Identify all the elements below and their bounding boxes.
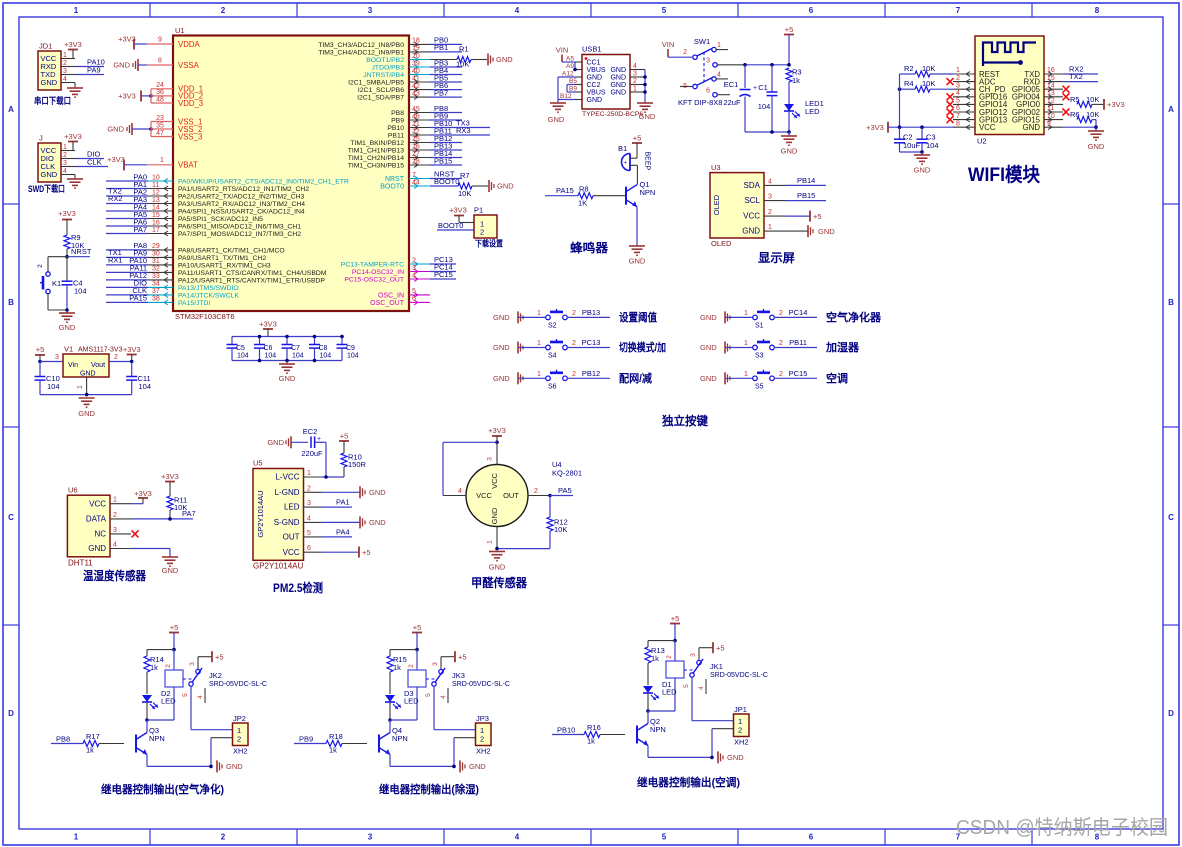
svg-text:PA1/USART2_RTS/ADC12_IN1/TIM2_: PA1/USART2_RTS/ADC12_IN1/TIM2_CH2: [178, 186, 309, 193]
pin PA0 10: [106, 172, 349, 185]
pin PB5 41: [348, 73, 462, 86]
svg-text:JD1: JD1: [39, 42, 52, 51]
ground at JD1 pin4: [67, 83, 83, 98]
svg-text:PB8: PB8: [56, 735, 70, 744]
svg-text:VDDA: VDDA: [178, 40, 200, 49]
svg-text:B: B: [8, 298, 14, 307]
svg-text:46: 46: [412, 113, 420, 120]
svg-text:1k: 1k: [329, 746, 337, 755]
svg-text:OUT: OUT: [283, 533, 300, 542]
svg-text:2: 2: [572, 340, 576, 347]
svg-text:PC15: PC15: [434, 270, 453, 279]
pin PB0 18: [318, 36, 462, 49]
svg-text:3: 3: [706, 58, 710, 65]
ground port at R1: [488, 54, 513, 66]
svg-text:+3V3: +3V3: [64, 40, 82, 49]
pin PA3 13: [106, 195, 305, 208]
wires USB1 left pins: [558, 56, 582, 104]
svg-text:7: 7: [412, 172, 416, 179]
svg-text:继电器控制输出(除湿): 继电器控制输出(除湿): [379, 782, 479, 796]
svg-text:PA0/WKUP/USART2_CTS/ADC12_IN0/: PA0/WKUP/USART2_CTS/ADC12_IN0/TIM2_CH1_E…: [178, 179, 349, 186]
svg-text:2: 2: [738, 726, 742, 735]
pin PA11 32: [106, 264, 327, 277]
pin PA9 30: [106, 249, 266, 262]
svg-text:VCC: VCC: [89, 499, 106, 508]
svg-text:104: 104: [237, 353, 249, 360]
svg-text:2: 2: [779, 340, 783, 347]
svg-text:GND: GND: [781, 147, 798, 156]
wire PA1 from U5 LED: [322, 498, 352, 508]
svg-text:PA1: PA1: [336, 498, 350, 507]
svg-text:2: 2: [408, 664, 415, 668]
pin U2 RXD 15: [1024, 75, 1063, 87]
svg-text:PB11: PB11: [789, 338, 807, 347]
pin PB14 27: [348, 149, 462, 162]
pin PA4 14: [106, 202, 305, 215]
svg-text:PA9/USART1_TX/TIM1_CH2: PA9/USART1_TX/TIM1_CH2: [178, 255, 266, 262]
capacitor C8 104: [309, 335, 331, 363]
capacitor C6 104: [254, 335, 276, 363]
svg-text:Vin: Vin: [68, 362, 78, 369]
pin PB8 45: [391, 104, 462, 117]
svg-text:KQ-2801: KQ-2801: [552, 469, 582, 478]
pin VSSA 8 with GND: [113, 58, 199, 72]
pin PC15 4: [344, 270, 456, 284]
svg-text:GND: GND: [1088, 142, 1105, 151]
svg-text:JTDO/PB3: JTDO/PB3: [372, 65, 405, 72]
svg-text:4: 4: [63, 76, 67, 83]
svg-text:2: 2: [221, 6, 226, 15]
svg-text:22: 22: [412, 128, 420, 135]
svg-text:PA9: PA9: [87, 66, 101, 75]
svg-text:OSC_IN: OSC_IN: [378, 293, 404, 300]
connector USB1 TYPEC-250D-BCP6: [582, 45, 643, 119]
pin PA10 31: [106, 256, 271, 269]
svg-text:PA5: PA5: [558, 486, 572, 495]
pushbutton S3 to PB11: [700, 338, 860, 360]
power +3V3 at U6 VCC: [131, 489, 152, 504]
svg-text:+3V3: +3V3: [866, 123, 884, 132]
ground at U2 GND pin9: [1063, 125, 1105, 151]
svg-text:GND: GND: [493, 374, 510, 383]
svg-text:3: 3: [189, 662, 196, 666]
svg-text:38: 38: [152, 296, 160, 303]
svg-text:C6: C6: [264, 345, 273, 352]
svg-text:PC13: PC13: [582, 338, 601, 347]
svg-text:104: 104: [320, 353, 332, 360]
svg-text:S-GND: S-GND: [274, 518, 300, 527]
transistor Q1 NPN: [626, 180, 655, 246]
svg-text:BOOT0: BOOT0: [438, 221, 463, 230]
svg-text:14: 14: [1047, 82, 1055, 89]
svg-text:NRST: NRST: [385, 176, 405, 183]
svg-text:JNTRST/PB4: JNTRST/PB4: [363, 72, 404, 79]
resistor R4 10K: [898, 79, 953, 92]
svg-text:10K: 10K: [456, 60, 469, 69]
pin PB9 46: [391, 111, 462, 124]
svg-text:PB11: PB11: [388, 133, 404, 140]
svg-text:A12: A12: [562, 71, 574, 78]
resistor R18 1k on PB9: [294, 732, 367, 755]
svg-text:EC1: EC1: [724, 80, 739, 89]
svg-text:1: 1: [744, 310, 748, 317]
svg-text:7: 7: [956, 113, 960, 120]
svg-text:GND: GND: [369, 488, 386, 497]
no-connect X at U2 GPIO13: [947, 116, 954, 123]
svg-text:1k: 1k: [393, 663, 401, 672]
svg-text:10: 10: [1047, 113, 1055, 120]
svg-text:GND: GND: [610, 89, 626, 96]
svg-text:3: 3: [63, 160, 67, 167]
svg-text:37: 37: [152, 288, 160, 295]
svg-text:104: 104: [47, 382, 60, 391]
svg-text:104: 104: [926, 141, 939, 150]
svg-text:1k: 1k: [86, 746, 94, 755]
ground at Q1: [629, 246, 646, 266]
ground at Q2 emitter: [648, 746, 744, 764]
svg-text:104: 104: [265, 353, 277, 360]
svg-text:26: 26: [412, 143, 420, 150]
wire top rail SW1 to R3: [743, 63, 791, 67]
wire +3V3 rail of capacitor bank: [232, 336, 342, 338]
svg-text:VBUS: VBUS: [587, 89, 606, 96]
svg-text:R17: R17: [86, 732, 100, 741]
svg-text:PC13-TAMPER-RTC: PC13-TAMPER-RTC: [341, 262, 404, 269]
no-connect X at U2 ADC: [947, 78, 954, 85]
power +5 at U5 VCC: [322, 547, 371, 558]
pin OSC_IN 5: [378, 288, 430, 299]
power +3V3 at P1: [449, 206, 474, 223]
pin PB3 39: [372, 58, 462, 71]
svg-text:GND: GND: [496, 55, 513, 64]
svg-text:1k: 1k: [150, 663, 158, 672]
svg-text:BEEP: BEEP: [644, 152, 651, 171]
svg-text:150R: 150R: [348, 460, 367, 469]
pin PB13 26: [348, 141, 462, 154]
svg-text:4: 4: [412, 272, 416, 279]
relay JK2 switch: [182, 651, 267, 703]
pin U2 GPIO04 13: [1012, 90, 1063, 102]
svg-text:+5: +5: [671, 614, 680, 623]
ground at U5 L-GND: [322, 486, 386, 498]
resistor R11 10K pullup: [161, 472, 187, 519]
wire bottom rail EC1/C1/LED1: [745, 130, 791, 134]
svg-text:JP2: JP2: [233, 714, 246, 723]
svg-text:PB10: PB10: [387, 125, 404, 132]
svg-text:下载设置: 下载设置: [475, 239, 503, 249]
sensor U6 DHT11: [67, 486, 131, 568]
LED1: [784, 99, 824, 132]
pin PB15 28: [348, 156, 462, 169]
svg-text:C1: C1: [758, 83, 768, 92]
svg-text:温湿度传感器: 温湿度传感器: [83, 568, 147, 583]
wire CLK from J pin3: [75, 158, 108, 167]
svg-text:+3V3: +3V3: [161, 472, 179, 481]
power +3V3 at V1 output: [109, 345, 141, 363]
pin U2 REST 1: [953, 67, 1000, 79]
svg-text:10K: 10K: [458, 189, 471, 198]
svg-text:GND: GND: [610, 67, 626, 74]
svg-text:串口下载口: 串口下载口: [34, 95, 71, 106]
svg-text:I2C1_SDA/PB7: I2C1_SDA/PB7: [357, 95, 404, 102]
no-connect X at U2 GPIO04: [1063, 93, 1070, 100]
svg-text:47: 47: [156, 130, 164, 137]
svg-text:VIN: VIN: [662, 40, 675, 49]
svg-text:27: 27: [412, 151, 420, 158]
svg-text:C: C: [1168, 513, 1174, 522]
svg-text:VCC: VCC: [743, 212, 760, 221]
svg-text:6: 6: [307, 545, 311, 552]
svg-text:PA15/JTDI: PA15/JTDI: [178, 300, 210, 307]
svg-text:5: 5: [683, 684, 690, 688]
power +5 at U3 VCC: [786, 211, 822, 222]
svg-text:GND: GND: [469, 762, 486, 771]
resistor R2 10K: [900, 64, 954, 77]
svg-text:U1: U1: [175, 26, 185, 35]
svg-text:VCC: VCC: [490, 473, 499, 489]
svg-text:3: 3: [432, 662, 439, 666]
svg-text:继电器控制输出(空气净化): 继电器控制输出(空气净化): [101, 782, 224, 796]
LED D1: [643, 680, 677, 711]
svg-text:PC14: PC14: [789, 308, 808, 317]
svg-text:1: 1: [487, 540, 494, 544]
svg-text:5: 5: [662, 833, 667, 842]
svg-text:GND: GND: [914, 166, 931, 175]
svg-text:104: 104: [347, 353, 359, 360]
svg-text:16: 16: [1047, 67, 1055, 74]
wire TX2 from U2 RXD: [1063, 72, 1098, 82]
svg-text:4: 4: [768, 178, 772, 185]
pin U2 CH_PD 3: [953, 82, 1006, 94]
svg-text:PA3/USART2_RX/ADC12_IN3/TIM2_C: PA3/USART2_RX/ADC12_IN3/TIM2_CH4: [178, 201, 305, 208]
svg-text:+5: +5: [716, 643, 725, 652]
svg-text:1: 1: [113, 497, 117, 504]
svg-text:10K: 10K: [922, 79, 935, 88]
svg-text:加湿器: 加湿器: [825, 340, 860, 354]
power +5 at relay JK2: [169, 623, 179, 651]
svg-text:2: 2: [480, 228, 484, 237]
resistor R6 10K to GND: [1070, 110, 1099, 127]
svg-text:LED: LED: [161, 697, 176, 706]
svg-text:5: 5: [412, 288, 416, 295]
svg-text:SRD-05VDC-SL-C: SRD-05VDC-SL-C: [452, 681, 510, 688]
svg-text:2: 2: [113, 512, 117, 519]
switch SW1 KFT DIP-8X8: [662, 37, 745, 107]
svg-text:R6: R6: [1070, 110, 1080, 119]
svg-text:VCC: VCC: [283, 548, 300, 557]
svg-text:6: 6: [706, 88, 710, 95]
pushbutton S4 to PC13: [493, 338, 666, 360]
svg-text:PC15: PC15: [789, 369, 808, 378]
svg-text:NPN: NPN: [640, 188, 656, 197]
ground at J pin4: [67, 175, 83, 189]
svg-text:I2C1_SCL/PB6: I2C1_SCL/PB6: [358, 87, 404, 94]
svg-text:31: 31: [152, 258, 160, 265]
LED D3: [385, 689, 419, 720]
svg-text:21: 21: [412, 121, 420, 128]
resistor R3 1k: [786, 68, 802, 105]
svg-text:7: 7: [956, 6, 961, 15]
no-connect X at U2 GPIO12: [947, 109, 954, 116]
svg-text:3: 3: [768, 194, 772, 201]
svg-text:2: 2: [572, 310, 576, 317]
svg-text:GND: GND: [107, 125, 124, 134]
svg-text:B5: B5: [569, 78, 577, 85]
svg-text:TIM1_BKIN/PB12: TIM1_BKIN/PB12: [350, 140, 404, 147]
wire PA7 from U6 DATA: [131, 509, 196, 521]
svg-text:SDA: SDA: [744, 181, 761, 190]
svg-text:2: 2: [114, 354, 118, 361]
svg-text:OSC_OUT: OSC_OUT: [370, 300, 405, 307]
svg-text:4: 4: [717, 72, 721, 79]
svg-text:3: 3: [633, 71, 637, 78]
svg-text:TIM1_CH1N/PB13: TIM1_CH1N/PB13: [348, 148, 405, 155]
svg-text:VCC: VCC: [979, 123, 996, 132]
resistor R5 10K to +3V3: [1070, 95, 1125, 110]
svg-text:+5: +5: [813, 212, 822, 221]
svg-text:+3V3: +3V3: [488, 426, 506, 435]
power +3V3 at capacitor bank: [259, 320, 277, 337]
svg-text:NPN: NPN: [392, 734, 408, 743]
svg-text:34: 34: [152, 281, 160, 288]
wire +3V3 rail to U2 VCC: [866, 74, 953, 133]
svg-text:U2: U2: [977, 137, 987, 146]
wire PB15 from U3 SCL: [786, 191, 826, 200]
svg-text:104: 104: [292, 353, 304, 360]
svg-text:3: 3: [368, 833, 373, 842]
svg-text:PB12: PB12: [582, 369, 600, 378]
ground at USB1 left: [548, 103, 566, 124]
svg-text:32: 32: [152, 266, 160, 273]
transistor Q4 NPN: [379, 720, 408, 755]
svg-text:5: 5: [956, 98, 960, 105]
svg-text:+3V3: +3V3: [123, 345, 141, 354]
svg-text:I2C1_SMBAL/PB5: I2C1_SMBAL/PB5: [348, 80, 404, 87]
svg-text:6: 6: [809, 833, 814, 842]
svg-text:继电器控制输出(空调): 继电器控制输出(空调): [637, 775, 740, 789]
svg-text:5: 5: [425, 693, 432, 697]
svg-text:11: 11: [152, 182, 159, 189]
svg-text:PA12/USART1_RTS/CANTX/TIM1_ETR: PA12/USART1_RTS/CANTX/TIM1_ETR/USBDP: [178, 278, 325, 285]
svg-text:独立按键: 独立按键: [661, 413, 708, 428]
svg-text:23: 23: [156, 115, 164, 122]
capacitor C4 104: [62, 257, 87, 310]
svg-text:5: 5: [307, 530, 311, 537]
svg-text:1: 1: [74, 833, 79, 842]
svg-text:TIM1_CH2N/PB14: TIM1_CH2N/PB14: [348, 155, 405, 162]
wire PB14 from U3 SDA: [786, 176, 826, 185]
svg-text:4: 4: [633, 63, 637, 70]
svg-text:10K: 10K: [554, 525, 567, 534]
resistor R1 10K on PB2: [430, 45, 487, 69]
regulator V1 AMS1117-3V3: [40, 345, 123, 378]
connector JP2 XH2: [191, 686, 248, 766]
svg-text:R4: R4: [904, 79, 914, 88]
ground at C2/C3: [900, 150, 931, 174]
svg-text:PB15: PB15: [434, 156, 452, 165]
ground port at U3 GND: [786, 225, 835, 237]
svg-text:NPN: NPN: [650, 725, 666, 734]
svg-text:10K: 10K: [1086, 110, 1099, 119]
svg-text:1K: 1K: [578, 199, 587, 208]
MCU U1 STM32F103C8T6 body: [173, 26, 409, 321]
wires USB1 right GND pins: [630, 63, 647, 103]
svg-text:PA4: PA4: [336, 527, 350, 536]
svg-text:PB8: PB8: [391, 110, 404, 117]
svg-text:GND: GND: [279, 374, 296, 383]
wire PA9 from JD1 pin3: [75, 66, 104, 75]
svg-text:RX3: RX3: [456, 126, 471, 135]
svg-text:1: 1: [537, 371, 541, 378]
svg-text:B1: B1: [618, 144, 627, 153]
pin U2 GPIO05 14: [1012, 82, 1063, 94]
svg-text:2: 2: [633, 78, 637, 85]
svg-text:CSDN @特纳斯电子校园: CSDN @特纳斯电子校园: [956, 816, 1168, 839]
relay JK3 coil: [390, 650, 426, 720]
ground at K1/C4: [59, 308, 76, 332]
svg-text:R16: R16: [587, 723, 601, 732]
svg-text:GP2Y1014AU: GP2Y1014AU: [256, 490, 265, 537]
no-connect X at U2 GPIO05: [1063, 86, 1070, 93]
pushbutton S6 to PB12: [493, 369, 652, 391]
svg-text:2: 2: [768, 209, 772, 216]
pin PA8 29: [106, 241, 285, 254]
svg-text:41: 41: [412, 75, 420, 82]
svg-text:LED: LED: [404, 697, 419, 706]
svg-text:PB7: PB7: [434, 88, 448, 97]
svg-text:B: B: [1168, 298, 1174, 307]
pin U2 GPIO15 10: [1012, 113, 1063, 125]
svg-text:2: 2: [63, 60, 67, 67]
svg-text:CC2: CC2: [587, 82, 601, 89]
svg-text:GND: GND: [490, 507, 499, 524]
svg-text:LED: LED: [805, 107, 820, 116]
pin PB1 19: [318, 43, 462, 56]
svg-text:GP2Y1014AU: GP2Y1014AU: [253, 562, 303, 571]
pin PB4 40: [363, 66, 462, 79]
no-connect X at U6 NC: [132, 530, 139, 537]
svg-text:GND: GND: [742, 227, 760, 236]
pin U2 ADC 2: [953, 75, 996, 87]
svg-text:43: 43: [412, 90, 420, 97]
svg-text:GND: GND: [610, 74, 626, 81]
svg-text:GND: GND: [41, 78, 58, 87]
connector JP3 XH2: [434, 686, 491, 766]
svg-text:J: J: [39, 134, 43, 143]
svg-text:SW1: SW1: [694, 37, 710, 46]
connector J SWD: [38, 134, 75, 183]
svg-text:1: 1: [768, 224, 772, 231]
svg-text:GND: GND: [113, 61, 130, 70]
svg-text:GND: GND: [727, 753, 744, 762]
buzzer B1 BEEP: [618, 144, 651, 185]
svg-text:4: 4: [956, 90, 960, 97]
svg-text:甲醛传感器: 甲醛传感器: [471, 575, 528, 590]
svg-text:+5: +5: [413, 623, 422, 632]
svg-text:BOOT1/PB2: BOOT1/PB2: [366, 57, 404, 64]
svg-text:15: 15: [1047, 75, 1055, 82]
pin PA6 16: [106, 217, 301, 230]
resistor R8 1K on PA15: [545, 185, 626, 208]
svg-text:4: 4: [63, 168, 67, 175]
svg-text:1: 1: [633, 86, 637, 93]
svg-text:1: 1: [74, 6, 79, 15]
svg-text:1: 1: [744, 371, 748, 378]
svg-text:GND: GND: [226, 762, 243, 771]
svg-text:R5: R5: [1070, 95, 1080, 104]
svg-text:22uF: 22uF: [723, 98, 741, 107]
svg-text:NPN: NPN: [149, 734, 165, 743]
